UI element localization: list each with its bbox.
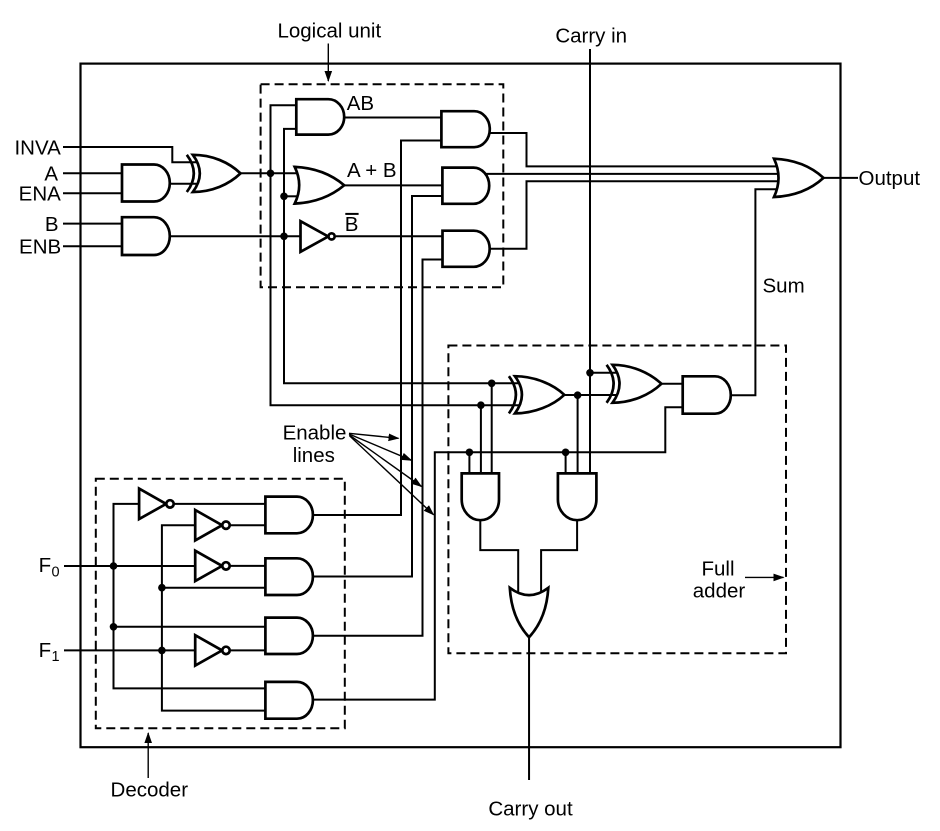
node A junction — [267, 170, 275, 178]
OR gate carry out — [510, 588, 549, 637]
node F1 junction — [158, 647, 166, 655]
wire INVA input — [63, 147, 197, 162]
wire B input — [63, 223, 122, 225]
svg-text:Output: Output — [859, 167, 921, 190]
svg-text:Carry out: Carry out — [488, 797, 573, 820]
decoder dashed box — [96, 479, 345, 729]
svg-text:Enable: Enable — [283, 422, 347, 445]
wire AND-A output to XOR — [170, 183, 197, 185]
AND gate A-ENA — [122, 165, 170, 202]
AND gate LU-3 — [443, 231, 490, 267]
wire A branch vertical — [271, 105, 520, 405]
decoder inverter 2 — [195, 510, 222, 540]
arrow enable 3 — [349, 435, 421, 487]
wire FA right AND output to carry OR — [541, 520, 577, 594]
node enable left junction — [466, 449, 474, 457]
decoder AND gate 4 — [265, 682, 313, 719]
wire enable drop left FA AND — [468, 452, 470, 473]
wire ENA input — [63, 192, 122, 194]
node enable right junction — [562, 449, 570, 457]
wire FA left AND output to carry OR — [480, 520, 518, 594]
wire enable line 2 — [313, 196, 443, 577]
wire carry out — [528, 637, 530, 780]
wire inverter B-bar output — [336, 235, 443, 237]
svg-text:A + B: A + B — [347, 159, 397, 182]
node XOR1 output junction — [574, 391, 582, 399]
wire decoder F0 to AND3 — [114, 626, 266, 628]
svg-text:0: 0 — [52, 565, 60, 581]
decoder AND gate 3 — [265, 618, 313, 654]
wire decoder F1 vertical — [162, 525, 266, 710]
decoder AND gate 1 — [265, 497, 313, 534]
XOR gate A-INVA — [193, 155, 241, 192]
arrow enable 1 — [349, 433, 399, 438]
node B line junction — [280, 233, 288, 241]
decoder inverter 1 — [139, 489, 166, 519]
wire decoder F0 vertical — [114, 504, 266, 689]
wire F1 input — [64, 649, 195, 651]
decoder inverter 4 — [195, 635, 222, 665]
svg-text:F: F — [39, 639, 52, 662]
AND gate sum — [683, 376, 731, 413]
AND gate FA carry left — [462, 473, 499, 520]
wire inverter4 output — [230, 649, 266, 651]
XOR gate FA-1 — [515, 376, 564, 413]
arrow logical unit — [327, 44, 329, 82]
wire ENB input — [63, 245, 122, 247]
svg-text:Full: Full — [701, 557, 734, 580]
svg-text:1: 1 — [52, 649, 60, 665]
wire A input — [63, 172, 122, 174]
svg-text:F: F — [39, 554, 52, 577]
wire OR A+B output — [344, 184, 442, 186]
node F1-AND2 junction — [158, 584, 166, 592]
wire enable drop right FA AND — [565, 452, 567, 473]
wire XOR1 out drop to FA AND — [577, 395, 579, 473]
svg-text:lines: lines — [293, 444, 335, 467]
wire AND3-LU output to output OR — [484, 181, 778, 249]
wire output — [824, 177, 859, 179]
AND gate LU-1 — [441, 111, 489, 147]
wire inverter3 output — [230, 565, 266, 567]
wire enable line 4 to full adder — [313, 407, 683, 699]
wire B to OR lower input — [284, 195, 300, 197]
svg-text:ENA: ENA — [19, 183, 61, 206]
wire carry in to XOR2 — [590, 372, 617, 374]
arrow full adder — [745, 576, 784, 578]
svg-text:Carry in: Carry in — [555, 25, 627, 48]
svg-text:Logical unit: Logical unit — [277, 20, 381, 43]
AND gate FA carry right — [558, 473, 597, 520]
svg-text:Sum: Sum — [763, 274, 805, 297]
wire carry in — [589, 49, 591, 473]
OR gate A+B — [295, 167, 345, 204]
node B to OR junction — [280, 193, 288, 201]
wire inverter2 output — [230, 524, 266, 526]
arrow enable 4 — [350, 436, 434, 515]
wire enable line 3 — [313, 260, 443, 636]
wire A drop to FA AND — [480, 405, 482, 473]
svg-text:B: B — [45, 213, 59, 236]
arrow enable 2 — [349, 434, 412, 460]
svg-text:adder: adder — [693, 579, 746, 602]
AND gate LU-2 — [442, 168, 489, 204]
inverter B-bar — [301, 221, 329, 252]
outer ALU box — [81, 64, 841, 748]
node F0-AND3 junction — [110, 623, 118, 631]
arrow decoder — [147, 733, 149, 778]
wire AND2-LU output to output OR — [481, 173, 780, 175]
wire B branch vertical — [284, 129, 519, 383]
wire inverter1 output — [175, 503, 266, 505]
OR gate output — [774, 159, 824, 197]
wire A line XOR output to OR gate — [241, 172, 299, 174]
svg-text:INVA: INVA — [14, 136, 61, 159]
svg-text:B: B — [345, 213, 359, 236]
wire AB gate output — [344, 117, 441, 119]
svg-text:AB: AB — [347, 92, 374, 115]
svg-text:Decoder: Decoder — [111, 778, 189, 801]
AND gate AB — [296, 99, 344, 134]
logical unit dashed box — [261, 84, 504, 287]
svg-text:ENB: ENB — [19, 236, 61, 259]
decoder inverter 3 — [195, 551, 222, 581]
decoder AND gate 2 — [265, 558, 313, 595]
wire decoder F1 to AND2 — [162, 587, 266, 589]
node B drop junction — [488, 380, 496, 388]
wire XOR2 output to sum AND — [661, 383, 683, 385]
wire enable line 1 — [313, 141, 442, 516]
AND gate B-ENB — [122, 217, 170, 255]
wire sum to output OR — [731, 189, 778, 395]
node carry in junction — [586, 369, 594, 377]
wire B main line — [170, 235, 301, 237]
wire B drop to FA AND — [491, 383, 493, 473]
XOR gate FA-2 — [613, 365, 662, 403]
wire AND1-LU output to output OR — [484, 133, 778, 166]
wire F0 input — [64, 565, 195, 567]
full adder dashed box — [448, 346, 786, 654]
wire XOR1 output to XOR2 — [564, 394, 617, 396]
node A drop junction — [477, 401, 485, 409]
node F0 junction — [110, 562, 118, 570]
